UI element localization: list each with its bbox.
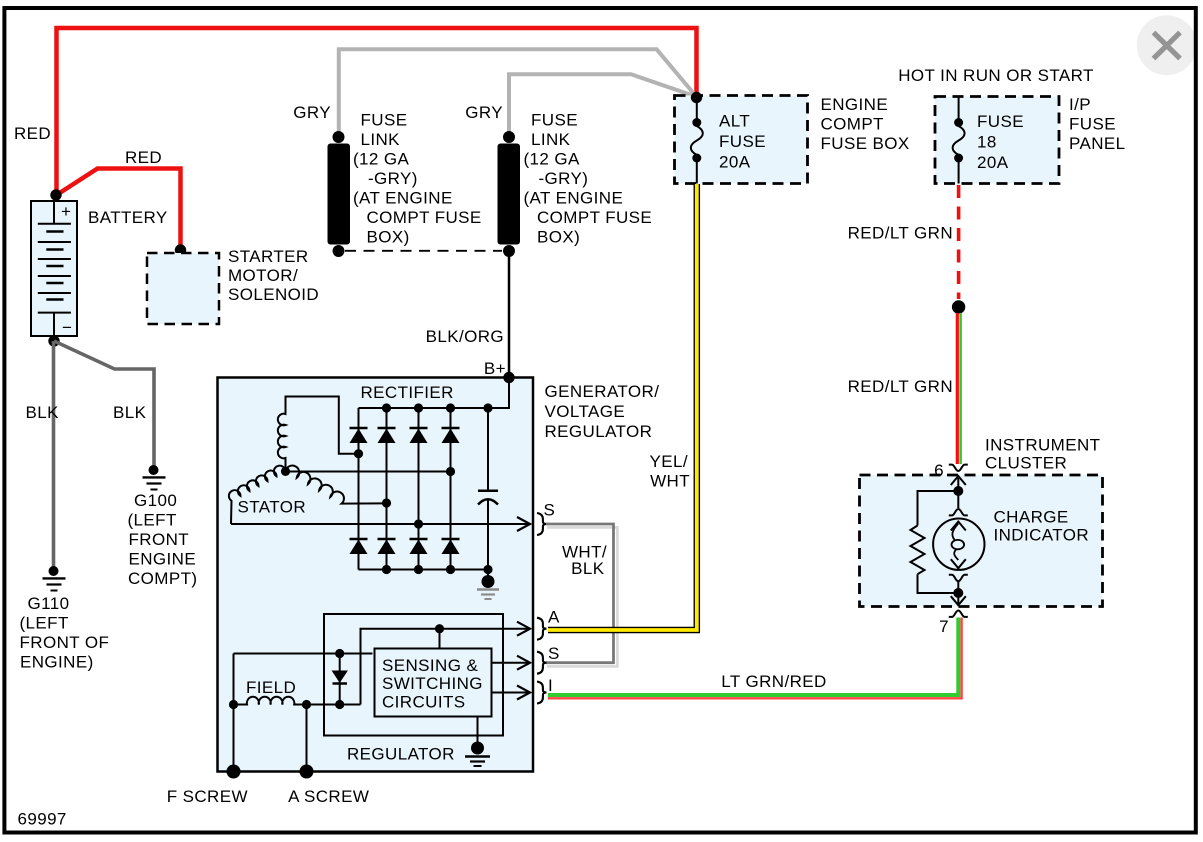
svg-text:B+: B+ xyxy=(484,359,506,378)
wire YEL/WHT ALT fuse to A terminal xyxy=(548,184,697,630)
svg-text:FUSE BOX: FUSE BOX xyxy=(821,134,910,153)
node top bus c4 xyxy=(446,403,455,412)
svg-text:BATTERY: BATTERY xyxy=(88,208,168,227)
ground rectifier xyxy=(477,570,499,600)
instrument cluster box xyxy=(860,475,1103,607)
wire RED/LT GRN dashed fuse 18 to splice xyxy=(957,185,961,299)
svg-text:RED: RED xyxy=(125,148,162,167)
svg-text:LINK: LINK xyxy=(361,130,401,149)
label ALT FUSE 20A xyxy=(719,112,766,172)
fuse ALT FUSE 20A element xyxy=(691,98,703,184)
label FUSE 18 20A xyxy=(977,112,1024,172)
svg-text:SWITCHING: SWITCHING xyxy=(382,674,483,693)
node B+ xyxy=(503,372,514,383)
inductor FIELD xyxy=(234,697,361,705)
stator winding C left coil xyxy=(229,466,286,524)
node bottom bus c2 xyxy=(382,565,391,574)
node fuse link 2 top xyxy=(503,131,515,143)
node charge indicator top xyxy=(953,486,963,496)
diode rectifier lower 4 xyxy=(442,539,460,554)
wire dashed link between fuse link bottoms xyxy=(345,250,502,252)
svg-text:ENGINE): ENGINE) xyxy=(20,653,94,672)
svg-text:(LEFT: (LEFT xyxy=(20,614,69,633)
node F screw xyxy=(227,765,241,779)
fuse link 1 xyxy=(328,144,351,245)
terminal S lower connector xyxy=(537,652,547,674)
svg-text:ENGINE: ENGINE xyxy=(821,95,889,114)
wire LT GRN/RED pin 7 to I terminal xyxy=(548,618,962,699)
diode regulator xyxy=(333,654,348,705)
label SENSING & SWITCHING CIRCUITS xyxy=(382,656,483,712)
node fuse link 1 bottom xyxy=(333,245,345,257)
terminal A connector xyxy=(537,618,547,640)
I/P fuse panel box (FUSE 18) xyxy=(935,97,1059,184)
wire rectifier column 4 xyxy=(450,408,452,570)
svg-text:20A: 20A xyxy=(977,153,1009,172)
svg-text:BOX): BOX) xyxy=(537,228,580,247)
svg-text:FUSE: FUSE xyxy=(361,111,408,130)
node c1 winding junction xyxy=(354,449,363,458)
diode rectifier lower 2 xyxy=(378,539,396,554)
svg-text:S: S xyxy=(548,644,560,663)
svg-text:FIELD: FIELD xyxy=(246,678,296,697)
wire rectifier top bus xyxy=(359,378,510,409)
node charge indicator bottom xyxy=(953,588,963,598)
starter motor solenoid box xyxy=(147,253,219,324)
label STARTER MOTOR/SOLENOID xyxy=(228,247,319,304)
terminal I arrow xyxy=(517,686,530,700)
svg-text:BLK: BLK xyxy=(571,559,605,578)
terminal S upper connector xyxy=(537,513,547,535)
fuse link 2 xyxy=(498,144,521,245)
svg-text:I/P: I/P xyxy=(1069,95,1091,114)
svg-text:LINK: LINK xyxy=(531,130,571,149)
svg-text:I: I xyxy=(548,676,553,695)
node top bus c3 xyxy=(414,403,423,412)
terminal S lower arrow xyxy=(517,656,530,670)
diode rectifier lower 3 xyxy=(410,539,428,554)
svg-text:GRY: GRY xyxy=(293,103,331,122)
node battery negative xyxy=(48,335,59,346)
svg-text:REGULATOR: REGULATOR xyxy=(545,422,653,441)
svg-text:F SCREW: F SCREW xyxy=(167,787,248,806)
wire sensing to I terminal xyxy=(492,692,529,694)
label FUSE LINK 2 xyxy=(524,111,653,247)
svg-text:ENGINE: ENGINE xyxy=(129,550,197,569)
svg-text:69997: 69997 xyxy=(18,810,67,829)
node field right xyxy=(302,700,311,709)
svg-text:CHARGE: CHARGE xyxy=(994,508,1069,527)
node fuse link 2 bottom xyxy=(503,245,515,257)
wire GRY fuse link 2 to ALT fuse xyxy=(509,74,697,138)
generator/voltage regulator box xyxy=(218,378,534,772)
ground G110 xyxy=(43,566,66,591)
svg-text:18: 18 xyxy=(977,133,997,152)
label I/P FUSE PANEL xyxy=(1069,95,1126,153)
svg-text:FUSE: FUSE xyxy=(977,112,1024,131)
wire RED/LT GRN splice to pin 6 xyxy=(957,313,960,464)
wire BLK battery to G110 xyxy=(52,341,56,567)
svg-text:7: 7 xyxy=(939,617,949,636)
svg-text:GENERATOR/: GENERATOR/ xyxy=(545,382,660,401)
wire RED battery to ALT fuse xyxy=(57,28,697,195)
node stator center xyxy=(281,467,290,476)
battery xyxy=(31,201,77,337)
terminal I connector xyxy=(537,682,547,704)
wire rectifier column 3 xyxy=(418,408,420,570)
node bottom bus c3 xyxy=(414,565,423,574)
svg-text:RED/LT GRN: RED/LT GRN xyxy=(848,377,953,396)
svg-text:G110: G110 xyxy=(28,594,70,613)
wire BLK battery to G100 xyxy=(54,341,154,466)
svg-text:G100: G100 xyxy=(134,491,177,510)
svg-text:VOLTAGE: VOLTAGE xyxy=(545,402,626,421)
stator winding A vertical coil xyxy=(278,397,359,472)
svg-text:20A: 20A xyxy=(719,153,751,172)
svg-text:(AT ENGINE: (AT ENGINE xyxy=(524,189,624,208)
wire sensing to S terminal xyxy=(492,662,529,664)
svg-text:LT GRN/RED: LT GRN/RED xyxy=(721,672,826,691)
node fuse link 1 top xyxy=(333,131,345,143)
wire RED battery to starter solenoid xyxy=(57,169,181,250)
svg-text:REGULATOR: REGULATOR xyxy=(347,745,455,764)
node bottom bus c5 xyxy=(483,565,492,574)
wire rectifier bottom bus xyxy=(359,569,489,571)
lamp CHARGE INDICATOR xyxy=(933,491,984,593)
wire BLK/ORG fuse link 2 to B+ xyxy=(508,251,511,377)
terminal S upper arrow xyxy=(517,517,530,531)
label GENERATOR/VOLTAGE REGULATOR xyxy=(545,382,660,441)
fuse FUSE 18 20A element xyxy=(953,97,965,184)
svg-text:COMPT FUSE: COMPT FUSE xyxy=(537,208,652,227)
svg-text:YEL/: YEL/ xyxy=(650,452,688,471)
svg-text:FRONT: FRONT xyxy=(129,530,190,549)
wire stator S output xyxy=(231,523,528,525)
svg-text:SOLENOID: SOLENOID xyxy=(228,285,319,304)
node c4 winding junction xyxy=(446,467,455,476)
svg-text:STARTER: STARTER xyxy=(228,247,309,266)
wire rectifier column 1 xyxy=(358,408,360,570)
svg-text:COMPT: COMPT xyxy=(821,115,884,134)
svg-text:S: S xyxy=(544,501,556,520)
svg-text:+: + xyxy=(61,202,71,221)
svg-text:RED: RED xyxy=(14,124,51,143)
svg-text:BLK/ORG: BLK/ORG xyxy=(426,327,504,346)
label G100 (LEFT FRONT ENGINE COMPT) xyxy=(128,491,198,588)
svg-text:FUSE: FUSE xyxy=(531,111,578,130)
wire WHT/BLK S to S xyxy=(546,524,614,663)
node starter terminal xyxy=(175,244,186,255)
svg-text:(12 GA: (12 GA xyxy=(524,150,581,169)
svg-text:FRONT OF: FRONT OF xyxy=(20,633,110,652)
svg-text:A SCREW: A SCREW xyxy=(288,787,369,806)
node battery positive xyxy=(50,189,61,200)
wire stator winding to c4 xyxy=(286,471,451,473)
svg-text:CIRCUITS: CIRCUITS xyxy=(382,693,465,712)
svg-text:-GRY): -GRY) xyxy=(539,169,589,188)
sensing and switching circuits box xyxy=(375,649,492,717)
svg-text:COMPT): COMPT) xyxy=(128,569,197,588)
svg-text:PANEL: PANEL xyxy=(1069,134,1126,153)
svg-text:BLK: BLK xyxy=(26,403,60,422)
wire WHT/BLK shadow xyxy=(547,527,617,666)
node bottom bus c4 xyxy=(446,565,455,574)
wire field left vertical xyxy=(233,654,235,772)
terminal A arrow xyxy=(517,622,530,636)
svg-text:(12 GA: (12 GA xyxy=(353,150,410,169)
svg-text:INDICATOR: INDICATOR xyxy=(994,526,1090,545)
label INSTRUMENT CLUSTER xyxy=(985,436,1100,473)
wire tap to sensing box xyxy=(439,629,441,649)
ground regulator xyxy=(465,717,490,767)
node ALT fuse top junction xyxy=(691,92,702,103)
wire field top line xyxy=(234,653,373,655)
svg-text:BLK: BLK xyxy=(113,403,147,422)
node top bus c5 xyxy=(483,403,492,412)
node diode top xyxy=(335,649,344,658)
svg-text:−: − xyxy=(62,318,72,337)
pin 7 connector xyxy=(949,611,968,617)
svg-text:STATOR: STATOR xyxy=(238,498,307,517)
svg-text:RECTIFIER: RECTIFIER xyxy=(361,383,454,402)
svg-text:-GRY): -GRY) xyxy=(368,169,418,188)
diode rectifier upper 4 xyxy=(442,428,460,443)
regulator inner box xyxy=(324,614,503,736)
svg-text:INSTRUMENT: INSTRUMENT xyxy=(985,436,1100,455)
svg-text:RED/LT GRN: RED/LT GRN xyxy=(848,224,953,243)
svg-text:MOTOR/: MOTOR/ xyxy=(228,266,298,285)
ground G100 xyxy=(143,465,166,490)
svg-text:SENSING &: SENSING & xyxy=(382,656,478,675)
diode rectifier upper 3 xyxy=(410,428,428,443)
diode rectifier upper 1 xyxy=(350,428,368,443)
node top bus c2 xyxy=(382,403,391,412)
svg-text:FUSE: FUSE xyxy=(1069,115,1116,134)
close button xyxy=(1137,15,1197,75)
svg-text:CLUSTER: CLUSTER xyxy=(985,454,1067,473)
label YEL/WHT xyxy=(650,452,690,491)
diode rectifier upper 2 xyxy=(378,428,396,443)
arrow out of cluster bottom xyxy=(951,593,966,605)
node splice xyxy=(952,300,965,313)
capacitor C1 xyxy=(478,408,498,570)
pin 6 connector xyxy=(949,465,968,471)
resistor shunt xyxy=(911,491,959,593)
svg-text:FUSE: FUSE xyxy=(719,132,766,151)
node A line tap xyxy=(435,624,444,633)
label G110 (LEFT FRONT OF ENGINE) xyxy=(20,594,110,672)
svg-text:(LEFT: (LEFT xyxy=(128,511,177,530)
label FUSE LINK 1 xyxy=(353,111,482,247)
wire field right vertical xyxy=(306,705,308,772)
svg-text:6: 6 xyxy=(934,461,944,480)
label WHT/BLK xyxy=(562,543,607,579)
diode rectifier lower 1 xyxy=(350,539,368,554)
stator winding B lower right coil xyxy=(286,466,387,504)
label CHARGE INDICATOR xyxy=(994,508,1090,545)
svg-text:GRY: GRY xyxy=(465,103,503,122)
node field left xyxy=(229,700,238,709)
arrow into cluster top xyxy=(951,476,966,491)
node A screw xyxy=(300,765,314,779)
node c2 winding junction xyxy=(382,498,391,507)
svg-text:HOT IN RUN OR START: HOT IN RUN OR START xyxy=(898,66,1094,85)
wire rectifier column 2 xyxy=(386,408,388,570)
engine compt fuse box (ALT FUSE) xyxy=(675,96,808,184)
wire A line xyxy=(361,629,529,705)
label ENGINE COMPT FUSE BOX xyxy=(821,95,910,153)
svg-text:BOX): BOX) xyxy=(367,228,410,247)
svg-text:WHT: WHT xyxy=(650,472,690,491)
wire GRY fuse link 1 to ALT fuse xyxy=(339,49,697,138)
svg-text:COMPT FUSE: COMPT FUSE xyxy=(367,208,482,227)
node c3 S junction xyxy=(414,519,423,528)
svg-text:ALT: ALT xyxy=(719,112,750,131)
node diode bottom xyxy=(335,700,344,709)
svg-text:(AT ENGINE: (AT ENGINE xyxy=(353,189,453,208)
svg-text:A: A xyxy=(548,608,560,627)
